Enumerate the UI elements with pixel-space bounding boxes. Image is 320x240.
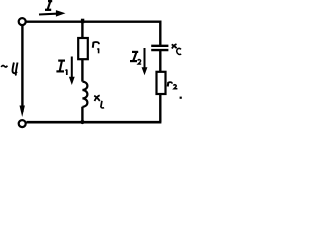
label I1 (56, 61, 66, 75)
source voltage arrow (down, above T2) (20, 106, 25, 118)
label ~ (AC sign) (1, 65, 7, 66)
label r2 (168, 82, 178, 89)
wire: top horizontal (27, 21, 162, 23)
wire: right branch bottom (159, 94, 161, 122)
wire: left vertical from T1 to T2 (21, 26, 23, 113)
resistor r1 (78, 38, 88, 59)
inductor xL (3 arcs) (82, 82, 87, 107)
wire: middle branch between r1 and xL (81, 59, 83, 81)
wire: right branch top (top wire to xC) (159, 21, 161, 46)
label xC (172, 44, 182, 54)
current arrow I2 (142, 48, 148, 75)
wire: bottom horizontal (27, 121, 162, 124)
wire: middle branch bottom (81, 107, 83, 123)
label I (45, 1, 52, 10)
resistor r2 (157, 72, 166, 94)
label r1 (93, 42, 99, 53)
wire: right branch between xC and r2 (159, 50, 161, 72)
speck (scan artifact near r2) (180, 97, 182, 99)
capacitor xC plate 1 (151, 45, 168, 47)
label xL (94, 95, 104, 108)
node: junction of middle branch on bottom wire (80, 120, 84, 124)
terminal T1 (top-left) (19, 18, 26, 25)
wire: middle branch top (top wire to r1) (81, 22, 83, 38)
current arrow I1 (69, 57, 75, 86)
terminal T2 (bottom-left) (19, 120, 26, 127)
label U (12, 63, 17, 76)
capacitor xC plate 2 (151, 49, 168, 51)
node: junction of middle branch on top wire (81, 19, 84, 24)
current arrow I (39, 10, 66, 17)
label I2 (130, 52, 141, 64)
